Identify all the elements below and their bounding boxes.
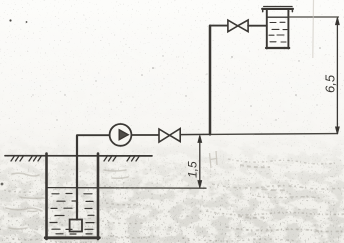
tank right wall <box>287 9 289 48</box>
foot valve strainer square <box>70 220 82 232</box>
pump impeller triangle <box>119 130 128 140</box>
ground hatch group left A <box>11 156 24 161</box>
dim 1,5 arrow up <box>198 135 202 142</box>
svg-text:6,5: 6,5 <box>323 74 338 93</box>
dim 1,5 arrow down <box>198 181 202 188</box>
faint pencil H mark <box>210 151 218 168</box>
pipe valve V2 to tank <box>248 25 266 27</box>
well bottom <box>45 236 99 239</box>
valve V1 (bowtie) <box>159 129 170 142</box>
well left wall <box>45 154 48 240</box>
dim 6.5 arrow up <box>336 18 340 25</box>
gritty streaks bottom right <box>4 159 344 242</box>
well water dashes <box>50 194 94 235</box>
dimension 6.5 vertical line <box>336 19 338 134</box>
svg-text:1,5: 1,5 <box>186 161 200 178</box>
well right wall <box>97 154 100 240</box>
scattered specks <box>1 19 321 185</box>
suction pipe horizontal to pump <box>77 134 110 136</box>
dim 6.5 arrow down <box>336 127 340 134</box>
tank bottom <box>266 47 289 49</box>
well water surface line <box>48 187 99 189</box>
valve V2 (bowtie) <box>228 20 238 32</box>
ground line <box>5 155 152 157</box>
ground hatch group right D <box>127 156 140 161</box>
tank left wall <box>266 9 268 48</box>
suction pipe (vertical in well) <box>76 136 78 220</box>
faint pencil smudges left of well <box>6 170 128 229</box>
ground hatch group left B <box>29 156 42 161</box>
tank T1 rim left tick <box>262 9 264 12</box>
tank T1 rim top thin line <box>264 5 293 7</box>
tank T1 rim right tick <box>291 9 293 12</box>
tank T1 rim lower thick line <box>262 8 293 10</box>
dimension 1,5 vertical line <box>199 137 201 188</box>
pipe valve V1 to riser junction <box>180 133 210 135</box>
faint scan fold line top right <box>312 0 315 58</box>
tank water surface line <box>267 16 288 18</box>
tank water dashes <box>269 22 287 42</box>
ground hatch group right C <box>104 156 117 161</box>
dim 6,5 extension line (tank water level) <box>288 16 338 18</box>
riser pipe vertical <box>209 26 212 135</box>
datum line (pump axis) to dimension <box>210 133 338 136</box>
top pipe riser to valve V2 <box>210 25 228 27</box>
pump P1 circle <box>110 124 132 146</box>
pipe pump to valve V1 <box>132 134 159 136</box>
dim 1,5 extension line (water level) <box>98 187 206 189</box>
